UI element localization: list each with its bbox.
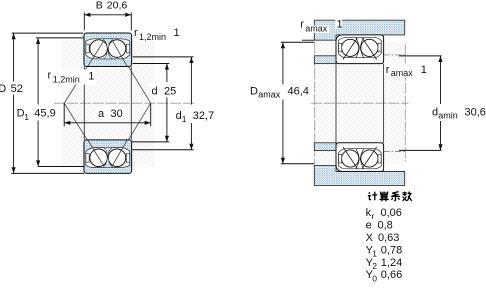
svg-text:amin: amin: [438, 111, 458, 121]
svg-text:0,78: 0,78: [381, 244, 402, 256]
svg-text:25: 25: [164, 85, 176, 97]
svg-text:45,9: 45,9: [34, 107, 55, 119]
svg-text:0,8: 0,8: [378, 220, 393, 232]
svg-text:D: D: [250, 86, 258, 98]
svg-text:46,4: 46,4: [288, 86, 309, 98]
svg-text:r: r: [386, 64, 390, 76]
svg-text:20,6: 20,6: [107, 0, 128, 11]
svg-text:1: 1: [421, 64, 427, 76]
svg-text:d: d: [152, 85, 158, 97]
svg-text:e: e: [366, 220, 372, 232]
svg-text:0: 0: [372, 273, 377, 283]
svg-text:D: D: [0, 83, 6, 95]
svg-text:r: r: [48, 70, 52, 82]
svg-text:a: a: [98, 108, 105, 120]
svg-text:r: r: [134, 27, 138, 39]
svg-text:0,06: 0,06: [381, 207, 402, 219]
svg-text:30,6: 30,6: [465, 107, 486, 119]
svg-text:1: 1: [174, 27, 180, 39]
svg-text:B: B: [96, 0, 103, 11]
svg-text:1: 1: [337, 18, 343, 30]
svg-text:1,2min: 1,2min: [139, 32, 166, 42]
svg-text:d: d: [432, 107, 438, 119]
svg-text:X: X: [366, 232, 374, 244]
svg-text:amax: amax: [391, 68, 414, 78]
svg-text:amax: amax: [258, 90, 281, 100]
svg-text:r: r: [372, 211, 375, 221]
svg-text:52: 52: [11, 83, 23, 95]
svg-text:0,63: 0,63: [378, 232, 399, 244]
svg-text:30: 30: [111, 108, 123, 120]
svg-text:1: 1: [88, 70, 94, 82]
svg-text:1,2min: 1,2min: [53, 75, 80, 85]
svg-text:1,24: 1,24: [381, 257, 402, 269]
svg-text:0,66: 0,66: [381, 269, 402, 281]
svg-text:1: 1: [24, 112, 29, 122]
svg-text:r: r: [300, 18, 304, 30]
svg-text:32,7: 32,7: [193, 110, 214, 122]
svg-text:d: d: [176, 110, 182, 122]
svg-text:1: 1: [182, 114, 187, 124]
svg-text:amax: amax: [305, 23, 328, 33]
